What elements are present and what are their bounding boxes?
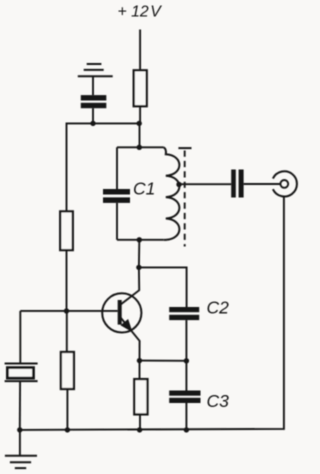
wire collector diagonal — [120, 267, 139, 305]
node rail C3 junction — [184, 427, 189, 432]
wire R3 to rail — [66, 389, 68, 430]
wire tap to coupling cap — [179, 183, 231, 185]
resistor R4 (emitter) — [134, 379, 147, 414]
node collector junction — [136, 265, 141, 270]
wire C2 bottom — [185, 320, 187, 361]
node emitter junction — [137, 358, 142, 363]
node B junction (decoupling cap) — [90, 121, 95, 126]
wire emitter node down — [139, 361, 141, 380]
transistor Q1 — [102, 293, 141, 332]
wire R1 bottom to node A — [139, 106, 141, 123]
ground (top, inverted) — [78, 64, 113, 76]
capacitor C4 (decoupling, thick plates) — [81, 103, 107, 108]
node base junction — [64, 308, 69, 313]
wire base node down to R3 — [66, 311, 68, 352]
capacitor C3 (thick plates) — [169, 391, 200, 396]
wire emitter node to C2/C3 node — [140, 360, 187, 362]
wire base lead — [20, 310, 117, 312]
wire connector down — [20, 197, 284, 430]
connector J1 (coax output) — [273, 171, 297, 196]
node C2/C3 junction — [184, 358, 189, 363]
node rail crystal junction — [17, 427, 22, 432]
node A junction — [137, 121, 142, 126]
wire base corner down — [19, 311, 21, 363]
wire decoupling cap lead upper — [92, 76, 94, 95]
node rail emitter junction — [137, 427, 142, 432]
svg-text:V: V — [150, 4, 162, 21]
wire C3 bottom to rail — [185, 403, 187, 430]
wire tank bottom to collector node — [138, 240, 140, 268]
resistor R3 (lower bias) — [61, 352, 74, 389]
ground (bottom) — [5, 456, 37, 468]
wire top horizontal rail — [67, 123, 140, 211]
svg-text:+ 12: + 12 — [118, 4, 149, 21]
svg-text:C1: C1 — [133, 179, 155, 199]
node coil tap junction — [176, 182, 181, 187]
wire tank top — [117, 146, 164, 148]
node tank top junction — [137, 145, 142, 150]
svg-text:C3: C3 — [207, 391, 230, 411]
wire decoupling cap lead lower — [92, 108, 94, 123]
wire R2 bottom to base node — [66, 250, 68, 311]
wire ground lead — [19, 430, 21, 456]
wire tank left lower — [116, 203, 118, 240]
svg-text:C2: C2 — [207, 298, 230, 318]
wire C3 branch upper — [185, 361, 187, 391]
capacitor C1 (thick plates) — [103, 189, 130, 195]
wire collector node to C2 branch — [139, 267, 187, 307]
wire tank bottom — [117, 239, 164, 241]
wire supply lead — [139, 30, 141, 71]
adjustable core dashed line — [184, 151, 186, 247]
inductor L1 (4 bumps) — [164, 147, 180, 240]
crystal X1 — [5, 363, 38, 365]
wire emitter resistor to rail — [139, 414, 141, 430]
resistor R1 (collector resistor) — [134, 70, 147, 106]
adjustable core T-bar — [178, 147, 191, 149]
capacitor C5 (coupling, vertical thick plates) — [231, 170, 236, 198]
node tank bottom junction — [137, 237, 142, 242]
wire tank left upper — [116, 147, 118, 189]
resistor R2 (upper bias) — [60, 211, 73, 250]
wire coupling cap to connector — [244, 183, 281, 185]
wire node A to tank top — [139, 123, 141, 147]
emitter arrow — [121, 320, 131, 331]
wire crystal to rail — [19, 381, 21, 430]
node rail R3 junction — [65, 427, 70, 432]
capacitor C2 (thick plates) — [169, 307, 199, 312]
wire emitter diagonal — [121, 318, 140, 361]
